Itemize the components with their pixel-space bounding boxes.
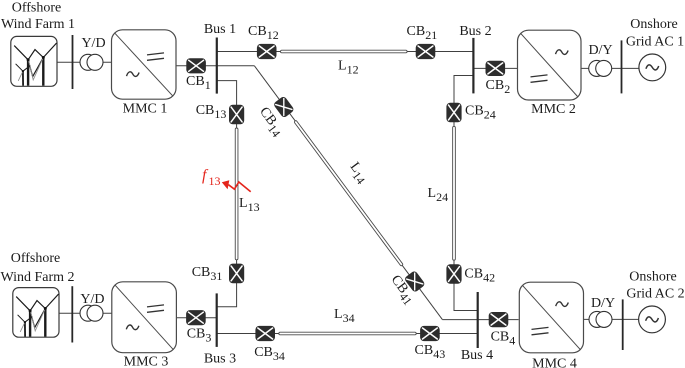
label MMC 3 (124, 355, 169, 368)
svg-text:MMC 2: MMC 2 (531, 102, 576, 117)
label MMC 1 (123, 102, 168, 117)
breaker CB3 (186, 310, 206, 325)
svg-text:Bus 2: Bus 2 (459, 24, 491, 39)
label CB34 (254, 345, 285, 363)
breaker CB14 (273, 96, 295, 119)
svg-text:Onshore: Onshore (629, 270, 676, 285)
converter MMC 3 (112, 282, 177, 353)
wire: Bus 1 to CB12 to L12 to CB21 to Bus 2 (217, 51, 474, 53)
label L24 (428, 186, 449, 204)
wire: Bus 2 branch down through CB24, L24, CB42 to Bus 4 (454, 76, 478, 311)
svg-text:Onshore: Onshore (630, 17, 677, 32)
label CB12 (248, 24, 279, 42)
fault marker f13 arrow (222, 180, 251, 192)
label CB42 (464, 267, 495, 285)
bus Bus 4 (477, 292, 479, 348)
wire: wind farm 2 to transformer T2 to MMC3 (58, 312, 112, 314)
converter MMC 2 (518, 30, 582, 100)
wire: Bus 2 to CB2 to MMC2 (473, 67, 517, 69)
line L14 cable (294, 120, 403, 266)
bus Bus 2 (472, 38, 474, 94)
bus Bus 1 (216, 38, 218, 94)
AC collector bar wind farm 2 (71, 286, 73, 342)
svg-text:D/Y: D/Y (588, 43, 612, 58)
svg-text:13: 13 (209, 174, 221, 188)
bus Bus 3 (216, 293, 218, 347)
label CB43 (415, 343, 446, 361)
svg-text:Grid AC 2: Grid AC 2 (626, 287, 684, 302)
label MMC 4 (532, 357, 577, 368)
wire: diagonal from node near Bus1 through CB14, L14, CB41 to corner near Bus 4 (254, 66, 442, 320)
label MMC 2 (531, 102, 576, 117)
label Offshore Wind Farm 1 (1, 0, 75, 32)
svg-text:D/Y: D/Y (591, 296, 615, 311)
label Bus 1 (204, 22, 236, 37)
label Bus 4 (461, 348, 493, 363)
breaker CB13 (229, 105, 244, 125)
wind farm WF2 box (13, 288, 59, 338)
label CB2 (486, 78, 511, 96)
AC source G2 (639, 306, 666, 333)
fault marker f13 label (202, 167, 221, 188)
label Bus 2 (459, 24, 491, 39)
svg-text:Bus 3: Bus 3 (204, 352, 236, 367)
label CB31 (192, 265, 223, 283)
svg-text:Bus 1: Bus 1 (204, 22, 236, 37)
wire: MMC1 to CB1 to Bus 1 to corner of diagonal (176, 65, 254, 67)
converter MMC 4 (519, 282, 583, 353)
wire: MMC2 to transformer T3 to grid bar 1 to AC source G1 (581, 67, 639, 69)
svg-text:Bus 4: Bus 4 (461, 348, 493, 363)
line L13 cable (235, 128, 238, 260)
label L13 (239, 196, 260, 214)
svg-text:Wind Farm 2: Wind Farm 2 (0, 270, 74, 285)
svg-text:Y/D: Y/D (80, 292, 104, 307)
label Bus 3 (204, 352, 236, 367)
converter MMC 1 (112, 30, 177, 99)
svg-text:MMC 3: MMC 3 (124, 355, 169, 368)
label CB41 rotated (385, 273, 418, 308)
line L24 cable (453, 126, 456, 260)
breaker CB42 (446, 264, 461, 284)
breaker CB2 (486, 61, 506, 76)
svg-text:Offshore: Offshore (11, 251, 61, 266)
breaker CB31 (229, 264, 244, 284)
label CB4 (491, 330, 516, 348)
transformer T1 Y/D (80, 54, 103, 70)
label Onshore Grid AC 1 (626, 17, 684, 50)
transformer T2 Y/D (80, 305, 103, 321)
label Onshore Grid AC 2 (626, 270, 684, 302)
breaker CB1 (186, 58, 206, 73)
wire: MMC4 to transformer T4 to grid bar 2 to AC source G2 (583, 318, 639, 320)
breaker CB41 (404, 270, 426, 293)
wire: wind farm 1 to transformer T1 to MMC1 (57, 61, 112, 63)
transformer T3 D/Y (589, 60, 612, 76)
svg-text:Grid AC 1: Grid AC 1 (626, 35, 684, 50)
breaker CB4 (489, 312, 509, 327)
label CB24 (465, 104, 496, 122)
label Y/D T1 (81, 36, 105, 51)
svg-text:MMC 4: MMC 4 (532, 357, 577, 368)
svg-text:Wind Farm 1: Wind Farm 1 (1, 17, 75, 32)
label CB3 (187, 327, 212, 345)
svg-text:Offshore: Offshore (12, 0, 62, 15)
label Offshore Wind Farm 2 (0, 251, 74, 285)
AC grid bar 2 (622, 299, 624, 350)
AC collector bar wind farm 1 (72, 35, 74, 89)
breaker CB34 (255, 326, 275, 341)
label CB13 (196, 103, 227, 121)
label Y/D T2 (80, 292, 104, 307)
wire: Bus 3 to CB34 to L34 to CB43 to Bus 4 (217, 333, 478, 335)
breaker CB24 (446, 103, 461, 123)
line L34 cable (279, 332, 416, 335)
label D/Y T3 (588, 43, 612, 58)
label L12 (338, 59, 359, 77)
wire: corner to Bus 4 to CB4 to MMC4 (442, 319, 518, 321)
transformer T4 D/Y (589, 311, 612, 327)
svg-text:MMC 1: MMC 1 (123, 102, 168, 117)
label CB14 rotated (254, 105, 287, 140)
label L14 rotated (344, 160, 371, 187)
AC grid bar 1 (621, 40, 623, 93)
breaker CB43 (420, 326, 440, 341)
wire: Bus 1 branch down through CB13, L13, CB31 to Bus 3 (217, 81, 237, 307)
label CB21 (407, 24, 438, 42)
breaker CB12 (257, 44, 277, 59)
line L12 cable (281, 50, 408, 53)
svg-text:Y/D: Y/D (81, 36, 105, 51)
breaker CB21 (416, 44, 436, 59)
wind farm WF1 box (11, 36, 57, 86)
wire: MMC3 to CB3 to Bus 3 (176, 317, 217, 319)
label L34 (334, 307, 355, 325)
label CB1 (186, 74, 211, 92)
AC source G1 (639, 54, 666, 81)
label D/Y T4 (591, 296, 615, 311)
